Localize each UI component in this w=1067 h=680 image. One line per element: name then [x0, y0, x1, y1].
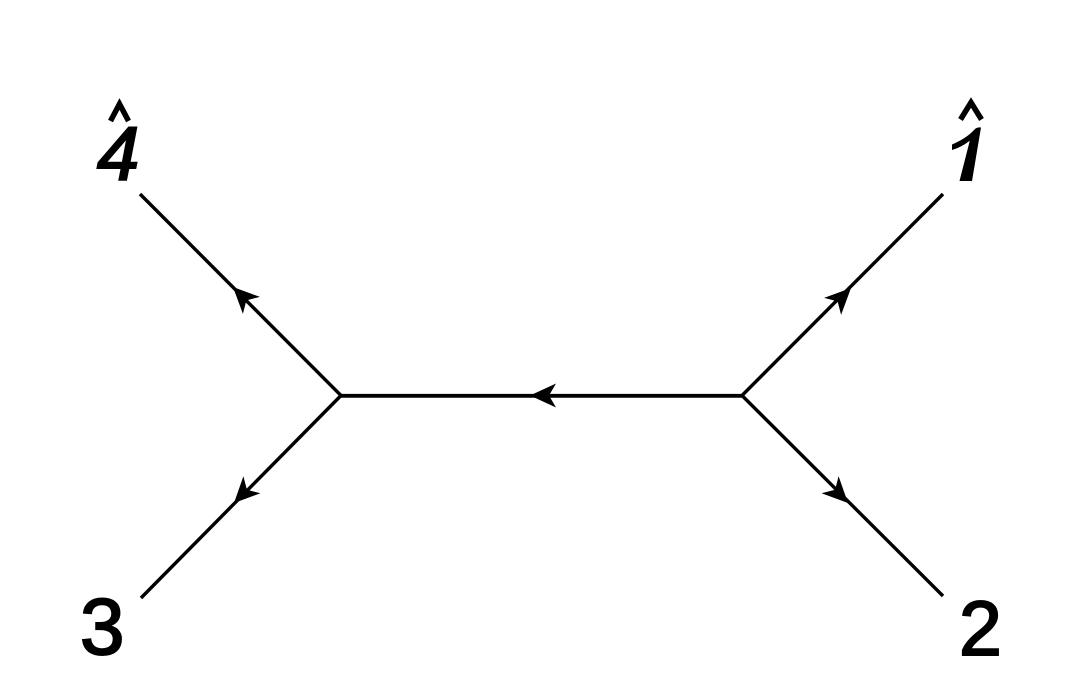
svg-text:4: 4	[97, 112, 139, 197]
hat over label 1	[961, 103, 982, 120]
wire: lower-left external leg to label 3	[141, 396, 341, 599]
wire: upper-right external leg to label 1	[742, 194, 943, 396]
wire: lower-right external leg to label 2	[742, 396, 943, 597]
arrowhead on upper-left leg pointing up-left	[233, 287, 260, 314]
svg-text:3: 3	[80, 582, 125, 671]
wire: upper-left external leg to label 4	[140, 194, 341, 396]
svg-text:2: 2	[959, 586, 1002, 672]
arrowhead on lower-left leg pointing down-left	[234, 476, 260, 503]
arrowhead on upper-right leg pointing up-right	[824, 288, 851, 315]
wire: horizontal propagator between vertices	[341, 394, 742, 398]
hat over label 4	[111, 104, 129, 121]
arrowhead on lower-right leg pointing down-right	[822, 476, 848, 503]
label 1 (italic)	[952, 127, 981, 181]
arrowhead on propagator pointing left	[530, 384, 556, 408]
